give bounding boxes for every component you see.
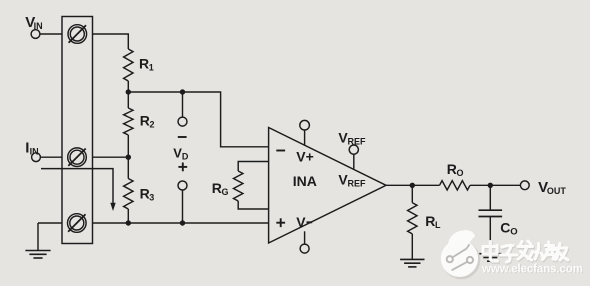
resistor RO: [440, 181, 470, 190]
svg-text:REF: REF: [348, 179, 367, 189]
node VD+: [178, 117, 187, 126]
wire VREF stem: [353, 154, 355, 169]
label plus input: [276, 218, 285, 227]
label VD plus: [178, 163, 187, 172]
wire: [127, 209, 129, 223]
label minus input: [276, 150, 285, 152]
wire RL bottom: [411, 234, 413, 259]
node V-: [300, 244, 309, 253]
svg-text:D: D: [182, 151, 189, 161]
svg-text:R: R: [447, 161, 457, 177]
label VD minus: [178, 136, 187, 138]
wire: [127, 81, 129, 108]
node VD bottom tap: [180, 220, 185, 225]
wire top junction bus: [128, 92, 268, 147]
svg-text:R: R: [140, 113, 150, 129]
烧: [535, 242, 558, 260]
capacitor CO: [479, 210, 503, 216]
svg-text:3: 3: [149, 192, 154, 202]
svg-text:G: G: [222, 187, 229, 197]
terminal VIN: [31, 30, 40, 39]
screw terminal 3: [68, 214, 87, 233]
node VREF: [349, 145, 358, 154]
arrowhead current: [110, 203, 115, 211]
terminal VOUT: [520, 181, 529, 190]
svg-text:R: R: [212, 180, 222, 196]
wire RG bottom: [238, 201, 268, 209]
wire: [40, 156, 62, 158]
wire VD bottom: [182, 190, 184, 223]
wire: [37, 223, 39, 250]
ground RL: [400, 259, 424, 267]
node output RL: [410, 183, 415, 188]
wire output: [386, 184, 440, 186]
resistor R3: [124, 179, 133, 209]
watermark text dianzifashaoyou: [483, 241, 568, 262]
resistor R2: [124, 108, 133, 135]
terminal block J1: [62, 17, 93, 244]
node bottom R3: [126, 220, 131, 225]
svg-text:INA: INA: [293, 173, 317, 189]
screw terminal 2: [68, 148, 87, 167]
wire: [40, 33, 62, 35]
wire current path with arrow: [41, 169, 113, 204]
wire: [470, 184, 520, 186]
resistor RG: [234, 171, 243, 201]
wire CO bottom: [489, 217, 491, 254]
svg-text:REF: REF: [348, 137, 367, 147]
wire CO top: [489, 185, 491, 210]
发: [518, 241, 533, 260]
op-amp U1 INA: [269, 128, 386, 244]
junction node dots: [110, 89, 493, 225]
wire RL top: [411, 185, 413, 202]
svg-text:L: L: [435, 220, 441, 230]
wire RG top: [238, 162, 268, 172]
wire: [38, 222, 62, 224]
wire bottom bus: [93, 222, 269, 224]
node VD-: [178, 181, 187, 190]
友: [553, 244, 568, 261]
svg-text:V: V: [296, 214, 306, 230]
node R1-R2: [126, 89, 131, 94]
screw terminal 1: [68, 25, 87, 44]
watermark: [441, 230, 584, 279]
svg-text:1: 1: [149, 63, 154, 73]
svg-text:O: O: [457, 168, 464, 178]
svg-text:IN: IN: [34, 21, 43, 31]
wire V+ stem: [304, 130, 306, 145]
resistor RL: [408, 203, 417, 234]
svg-text:V: V: [173, 146, 182, 161]
wire V- stem: [304, 231, 306, 244]
svg-text:OUT: OUT: [547, 186, 567, 196]
ground CO: [479, 254, 501, 262]
svg-text:R: R: [140, 185, 150, 201]
node R2-R3: [126, 155, 131, 160]
svg-text:R: R: [139, 56, 149, 72]
wire: [93, 156, 129, 158]
svg-text:IN: IN: [30, 147, 39, 157]
resistor R1: [124, 49, 133, 81]
svg-text:www.elecfans.com: www.elecfans.com: [481, 264, 583, 276]
node V+: [300, 120, 310, 130]
wire: [93, 34, 129, 49]
ground: [25, 251, 50, 259]
svg-text:2: 2: [150, 120, 155, 130]
node output CO: [488, 183, 493, 188]
电: [483, 242, 498, 262]
svg-text:C: C: [500, 220, 510, 236]
svg-text:R: R: [425, 213, 435, 229]
node VD top tap: [180, 89, 185, 94]
logo elecfans: [441, 230, 480, 279]
子: [501, 245, 518, 262]
svg-text:O: O: [510, 227, 517, 238]
wire VD top: [182, 92, 184, 117]
svg-text:V+: V+: [296, 149, 314, 165]
wire: [127, 135, 129, 179]
terminal IIN: [32, 153, 41, 162]
watermark text dianzifashaoyou shadow: [484, 242, 569, 263]
